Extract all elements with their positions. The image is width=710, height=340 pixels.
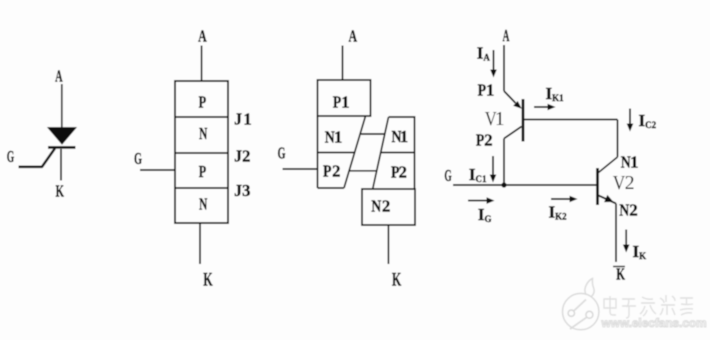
svg-text:1: 1 (243, 109, 252, 128)
svg-text:J: J (234, 109, 242, 128)
svg-text:K: K (56, 182, 65, 201)
svg-text:G: G (7, 147, 15, 166)
svg-text:2: 2 (382, 197, 391, 216)
svg-text:P: P (323, 161, 332, 180)
svg-text:2: 2 (242, 146, 251, 165)
svg-text:G: G (278, 143, 286, 162)
svg-text:N: N (199, 124, 208, 143)
svg-text:2: 2 (484, 131, 493, 150)
svg-text:G: G (134, 149, 142, 168)
svg-text:K: K (392, 270, 402, 291)
svg-text:2: 2 (399, 162, 408, 181)
svg-text:K: K (203, 270, 213, 291)
svg-text:A: A (198, 26, 207, 45)
svg-text:K: K (616, 265, 625, 284)
svg-text:2: 2 (629, 201, 638, 220)
svg-text:1: 1 (334, 128, 343, 147)
svg-text:2: 2 (625, 172, 635, 194)
svg-text:P: P (199, 92, 207, 111)
svg-text:A: A (349, 27, 358, 46)
svg-text:A: A (503, 26, 510, 45)
svg-text:1: 1 (341, 93, 350, 112)
svg-text:www.elecfans.com: www.elecfans.com (601, 316, 707, 330)
svg-text:1: 1 (486, 81, 495, 100)
svg-text:N: N (199, 195, 208, 214)
svg-text:G: G (444, 166, 451, 185)
svg-text:P: P (333, 93, 342, 112)
svg-text:1: 1 (630, 152, 639, 171)
svg-text:A: A (55, 66, 63, 85)
svg-text:1: 1 (495, 108, 505, 130)
svg-text:P: P (476, 131, 485, 150)
svg-text:1: 1 (400, 127, 409, 146)
svg-text:2: 2 (332, 161, 341, 180)
svg-text:3: 3 (242, 181, 251, 200)
svg-text:N: N (371, 197, 382, 216)
svg-text:P: P (199, 162, 207, 181)
